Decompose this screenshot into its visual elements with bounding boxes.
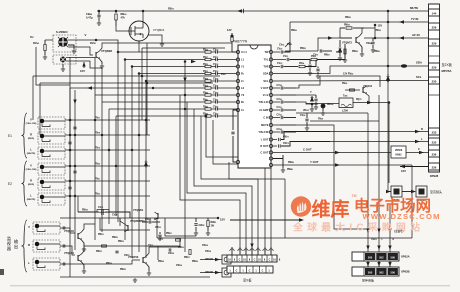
wire pin stub y95	[273, 94, 280, 96]
wire mon R to K04	[60, 246, 75, 255]
watermark logo circle	[291, 196, 311, 216]
svg-text:LZ06: LZ06	[342, 110, 348, 113]
wire drop x258	[257, 247, 259, 255]
svg-text:Y2: Y2	[241, 93, 245, 97]
svg-text:CW26: CW26	[176, 265, 182, 267]
svg-text:C: C	[239, 259, 241, 262]
svg-text:CV34: CV34	[213, 77, 218, 80]
svg-text:12V: 12V	[401, 169, 406, 173]
wire row 10 link	[211, 115, 216, 117]
svg-text:TVR: TVR	[263, 65, 268, 69]
wire stub e	[157, 246, 159, 260]
capacitor CB40	[97, 15, 100, 17]
svg-text:MUTE: MUTE	[261, 123, 269, 127]
wire row 1 to IC	[211, 51, 216, 53]
resistor RV33	[205, 72, 211, 74]
wire XP02A-XP02B x379	[378, 261, 380, 267]
wire VOUT link	[296, 76, 345, 88]
svg-text:至X板: 至X板	[243, 278, 252, 283]
connector cell 229	[429, 63, 440, 70]
wire C jack out 2	[66, 61, 102, 68]
svg-text:CV41: CV41	[213, 98, 218, 101]
wire S-video C out	[68, 47, 93, 55]
wire row 2 to IC	[211, 59, 216, 61]
svg-text:CLAMP: CLAMP	[259, 108, 268, 112]
wire pin stub y125	[273, 124, 280, 126]
svg-text:RV31: RV31	[203, 57, 208, 59]
svg-text:CV52: CV52	[279, 45, 284, 47]
connector cell 233	[429, 128, 440, 135]
capacitor CV55	[309, 60, 311, 65]
wire TVR row	[273, 66, 280, 68]
wire rail x70	[69, 57, 71, 277]
svg-text:C: C	[418, 147, 420, 151]
svg-text:CV32: CV32	[213, 64, 218, 66]
wire rail x75	[74, 90, 76, 250]
wire MUTE down	[296, 125, 368, 229]
resistor RV35	[205, 87, 211, 89]
ground IC right	[273, 155, 283, 159]
wire stub a	[100, 218, 150, 230]
pin right 16 nc	[269, 157, 272, 160]
wire bus vertical 4	[138, 74, 140, 253]
wire x285 down	[284, 179, 286, 238]
wire VTQN73 base	[340, 28, 352, 38]
svg-text:236: 236	[432, 152, 437, 156]
svg-text:(YELLOW): (YELLOW)	[26, 123, 37, 125]
parallel RC CV21/RW18	[78, 211, 97, 213]
pin right 10 C IN	[269, 116, 272, 119]
pin left 8 R<	[236, 100, 239, 103]
transistor VTQB21	[129, 21, 149, 41]
diode VD907	[311, 96, 313, 101]
wire SDA	[273, 66, 401, 74]
box XT201	[391, 186, 402, 197]
arrow mid col x368	[366, 229, 369, 234]
capacitor CW34	[63, 262, 65, 265]
junction dots mesh	[117, 51, 120, 54]
svg-text:出: 出	[14, 243, 18, 250]
brace E1	[22, 113, 28, 158]
wire corner extra 1	[206, 116, 265, 252]
wire row 6 to IC	[211, 87, 216, 89]
capacitor CV31c	[159, 232, 161, 234]
pin right 7 V<tspan font-size="1.8">CC</tspan>2	[269, 93, 272, 96]
pin right 5 SCL	[269, 79, 272, 82]
jack E2-L	[38, 193, 65, 205]
wire C OUT	[273, 152, 391, 154]
capacitor CW36b	[169, 248, 171, 251]
brace E2	[22, 161, 28, 206]
wire R OUT	[273, 145, 277, 147]
wire bus row 10	[116, 115, 205, 117]
wire bus corner 9	[194, 109, 252, 252]
capacitor CV53	[281, 65, 283, 68]
svg-text:RV54: RV54	[299, 62, 304, 65]
svg-text:R: R	[30, 178, 32, 182]
resistor RW37b	[189, 250, 191, 255]
wire bus corner 10	[201, 116, 258, 252]
wire K04 out	[82, 246, 101, 254]
connector XP91B-1	[222, 255, 231, 264]
ground VTQB21	[160, 42, 164, 46]
wire x379 col	[378, 95, 380, 252]
capacitor CV43	[216, 114, 218, 117]
label 12V arrow	[82, 62, 85, 67]
cell XP02B 1	[376, 268, 386, 275]
svg-text:RW55: RW55	[300, 48, 306, 50]
svg-text:R: R	[28, 243, 30, 247]
wire VTQ402 base	[345, 89, 360, 91]
wire RB50 to base	[116, 26, 131, 31]
cell XP02A 1	[376, 253, 386, 260]
wire VTQB21 emitter to ground	[149, 35, 163, 42]
svg-text:RW18: RW18	[82, 210, 88, 212]
wire y121 to col	[310, 120, 379, 122]
capacitor CW35	[115, 251, 118, 253]
wire x388 vertical	[387, 11, 389, 190]
svg-text:R: R	[30, 132, 32, 136]
svg-text:C: C	[254, 259, 256, 262]
arrow AF IN	[399, 36, 404, 40]
wire base riser	[318, 38, 352, 51]
wire bus row 4	[139, 73, 205, 75]
wire XP02A-XP02B x390	[389, 261, 391, 267]
svg-text:CW48: CW48	[145, 218, 151, 221]
ground VTQN08 emitter	[100, 59, 103, 64]
svg-text:CV18: CV18	[112, 215, 117, 217]
resistor RV31	[205, 58, 211, 60]
node 12V top	[374, 24, 377, 27]
svg-text:506: 506	[391, 271, 396, 275]
resistor RV43	[205, 115, 211, 117]
wire bus vertical 3	[131, 67, 133, 259]
svg-text:至伴音板: 至伴音板	[362, 278, 374, 283]
svg-text:SCL: SCL	[263, 79, 269, 83]
connector XP row1	[227, 255, 277, 262]
capacitor CV57	[320, 49, 322, 52]
wire drop x271	[270, 247, 272, 255]
svg-text:(WHITE): (WHITE)	[27, 153, 36, 155]
transistor VTQK03	[77, 233, 79, 239]
svg-text:CV62: CV62	[277, 115, 282, 117]
svg-text:RW43: RW43	[374, 50, 380, 53]
svg-text:KN02: KN02	[395, 154, 402, 157]
svg-text:236: 236	[432, 165, 437, 169]
wire SDA tail	[407, 65, 428, 67]
wire W10 base	[132, 259, 140, 261]
svg-text:RV21: RV21	[95, 179, 100, 181]
wire row 5 to IC	[211, 80, 216, 82]
svg-text:(RED): (RED)	[28, 184, 34, 186]
capacitor CE3	[73, 171, 76, 173]
wire y238 long	[157, 237, 412, 239]
svg-text:RV46: RV46	[342, 82, 347, 85]
resistor RV30	[205, 51, 211, 53]
wire TW row	[273, 51, 280, 53]
svg-text:TA8777N: TA8777N	[233, 40, 248, 44]
wire V to mesh	[105, 40, 118, 52]
resistor RW36b	[176, 239, 181, 241]
svg-text:230: 230	[432, 79, 437, 83]
wire drop x246	[245, 247, 247, 255]
capacitor CW48	[149, 220, 151, 223]
svg-text:SDA: SDA	[263, 72, 269, 76]
wire XP02A-XP02B x368	[367, 261, 369, 267]
wire SCL	[273, 80, 429, 83]
resistor RW39	[340, 27, 345, 29]
svg-text:RW35: RW35	[120, 269, 126, 271]
jack E1-V	[38, 117, 65, 129]
svg-text:12V: 12V	[227, 28, 232, 32]
wire 12V RV45	[345, 76, 380, 87]
svg-text:CV61: CV61	[277, 107, 282, 109]
wire VTQB21 down	[138, 41, 140, 52]
svg-text:CW71: CW71	[283, 137, 289, 139]
brace monitor-out	[22, 220, 28, 272]
pin right 4 SDA	[269, 72, 272, 75]
smudge bottom band	[10, 285, 450, 286]
resistor RV46b	[350, 89, 355, 91]
capacitor CV62	[281, 116, 283, 119]
capacitor CV33	[216, 72, 218, 75]
svg-text:VTQW01: VTQW01	[133, 209, 144, 212]
arrow mid col x390	[388, 229, 391, 234]
svg-text:CW29: CW29	[202, 245, 208, 247]
resistor RV34	[205, 80, 211, 82]
wire to XP91B-1	[200, 259, 222, 261]
svg-text:C: C	[269, 259, 271, 262]
svg-text:RW39: RW39	[344, 25, 350, 27]
wire jack row 1	[65, 119, 150, 121]
wire x390 col2	[389, 205, 391, 252]
capacitor CV58	[281, 86, 283, 89]
wire jack row 5	[65, 180, 150, 182]
wire svideo U loop	[36, 47, 70, 85]
svg-text:CV40: CV40	[213, 91, 218, 94]
svg-text:SCL: SCL	[416, 75, 422, 79]
svg-text:RV22: RV22	[95, 194, 100, 196]
pin right 1 TW	[269, 50, 272, 53]
pin left 9 C<	[236, 108, 239, 111]
wire drop x240	[239, 247, 241, 255]
svg-text:RW31: RW31	[98, 234, 104, 236]
jack MON-L	[33, 258, 60, 270]
wire bus corner 7	[180, 95, 240, 252]
arrow mesh down	[183, 78, 186, 83]
label 12V strip	[400, 165, 405, 169]
capacitor CE1	[73, 127, 76, 129]
bead LB1 SDA	[401, 64, 407, 67]
svg-text:V: V	[85, 33, 87, 37]
svg-text:RW42: RW42	[352, 50, 358, 53]
svg-text:VTQK04: VTQK04	[64, 252, 74, 255]
svg-text:V: V	[30, 117, 32, 121]
wire C jack out 1	[66, 57, 95, 59]
wire bottom gnd rail	[60, 276, 210, 278]
wire pin stub y117.5	[273, 117, 280, 119]
wire row 9 link	[211, 108, 216, 110]
jack MON-R	[33, 240, 60, 252]
svg-text:C: C	[249, 270, 251, 273]
pin right 14 R OUT	[269, 144, 272, 147]
arrow Y OUT	[335, 163, 340, 167]
svg-text:RV57: RV57	[221, 74, 226, 76]
diode VD11 on rail	[237, 9, 242, 13]
wire row 3 cap to IC	[217, 66, 237, 68]
pin right 12 YIN 3.58	[269, 130, 272, 133]
ground S-video shell	[62, 64, 64, 67]
cell XP02B 0	[365, 268, 375, 275]
arrow base	[328, 36, 333, 40]
capacitor CE2	[68, 142, 71, 144]
svg-text:RV20: RV20	[95, 164, 100, 166]
svg-text:CV35: CV35	[213, 85, 218, 87]
svg-text:CV53: CV53	[277, 63, 282, 65]
wire VTQB21 collector	[142, 11, 144, 24]
svg-text:TV IN: TV IN	[411, 17, 418, 21]
capacitor CV31	[216, 58, 218, 61]
wire 12V rail bottom	[60, 217, 218, 219]
svg-text:228: 228	[432, 25, 437, 29]
jack MON-V	[33, 222, 60, 234]
svg-text:SDA: SDA	[416, 61, 422, 65]
svg-text:RV59: RV59	[318, 119, 323, 121]
svg-text:RW37: RW37	[184, 257, 190, 259]
svg-text:RW36: RW36	[345, 17, 351, 19]
capacitor CV56	[317, 67, 319, 69]
svg-text:C: C	[236, 270, 238, 273]
transistor VTQW03	[127, 225, 129, 231]
wire row y83	[40, 82, 213, 84]
wire row 9 cap to IC	[217, 108, 237, 110]
svg-text:CW72: CW72	[283, 143, 289, 145]
wire mesh x185	[184, 62, 186, 253]
connector XP928 strip	[429, 4, 440, 172]
pin right 17 nc	[269, 163, 272, 166]
transistor VTQN73	[355, 37, 357, 43]
svg-text:144: 144	[432, 11, 437, 15]
svg-text:MPV5A: MPV5A	[442, 69, 453, 73]
wire VTQ402 emitter	[367, 94, 370, 104]
pin right 13 L OUT	[269, 138, 272, 141]
svg-text:RW21: RW21	[166, 233, 172, 235]
arrow drop	[250, 244, 253, 249]
svg-text:L: L	[28, 261, 30, 265]
svg-text:RV42: RV42	[203, 105, 208, 108]
wire LZ06 out	[353, 102, 389, 104]
svg-text:(RED): (RED)	[28, 138, 34, 140]
wire y220 into logo	[230, 219, 299, 221]
svg-text:RW28: RW28	[192, 261, 198, 263]
svg-text:RW32: RW32	[118, 241, 124, 243]
transistor VTQN08	[95, 52, 97, 58]
svg-text:RW45: RW45	[288, 161, 294, 164]
resistor RB50	[115, 11, 117, 13]
diode VD402	[387, 74, 389, 76]
svg-text:VTQN73: VTQN73	[342, 42, 352, 45]
IC U1 TA8777N body	[238, 45, 271, 168]
svg-text:RV40: RV40	[203, 91, 208, 94]
wire bus vertical 5	[145, 81, 147, 258]
svg-text:CV51: CV51	[283, 56, 288, 58]
wire row 8 link	[211, 101, 216, 103]
pin left 4 R<	[236, 72, 239, 75]
svg-text:Y1: Y1	[241, 65, 245, 69]
wire TVL row	[273, 59, 286, 61]
svg-text:维库: 维库	[312, 198, 350, 221]
wire VTQN73 collector	[360, 28, 376, 36]
svg-text:CW44: CW44	[366, 42, 372, 45]
capacitor CV41	[216, 100, 218, 103]
wire mon L row	[60, 263, 110, 265]
resistor RW30	[102, 245, 107, 247]
pin right 3 TVR	[269, 65, 272, 68]
svg-text:C IN: C IN	[263, 116, 268, 120]
arrow XP91B-1	[215, 258, 220, 262]
wire bus vertical 1	[117, 52, 119, 222]
cell XP02A 0	[365, 253, 375, 260]
wire row 4 cap to IC	[217, 73, 237, 75]
svg-text:CV21: CV21	[98, 207, 103, 209]
wire drop x265	[264, 247, 266, 255]
pin left 2 L1	[236, 58, 239, 61]
wire corner extra 2	[213, 120, 271, 252]
wire x78 from E-rail	[77, 196, 79, 212]
svg-text:(WHITE): (WHITE)	[27, 199, 36, 201]
node 12V bottom	[217, 217, 220, 220]
svg-text:RW24: RW24	[158, 260, 164, 263]
svg-text:VTQB21: VTQB21	[153, 28, 165, 32]
pin left 1 V<	[236, 50, 239, 53]
wire bus vertical 2	[124, 60, 126, 241]
jack E2-R	[38, 178, 65, 190]
svg-text:RV18: RV18	[95, 133, 100, 135]
wire x390 col	[388, 103, 390, 184]
svg-text:CW42: CW42	[199, 224, 205, 227]
wire to XP91B-2	[200, 272, 222, 274]
arrow rail75 down	[73, 100, 76, 105]
wire jack vertical 2	[101, 68, 103, 232]
svg-text:YIN 3.58: YIN 3.58	[258, 130, 269, 134]
wire svideo down left 1	[32, 76, 34, 120]
svg-text:500: 500	[368, 271, 373, 275]
resistor RV52	[311, 58, 317, 60]
wire mon V to K03	[60, 228, 75, 233]
wire TV IN drop	[285, 22, 290, 47]
wire row 4 to IC	[211, 73, 216, 75]
capacitor C206b	[321, 104, 326, 109]
svg-text:502: 502	[379, 256, 384, 260]
svg-text:L OUT: L OUT	[261, 138, 269, 142]
cell XP02B 2	[388, 268, 398, 275]
svg-text:CV60: CV60	[277, 99, 282, 101]
arrow TV IN	[399, 20, 404, 24]
wire svideo down left 2	[39, 83, 41, 135]
wire VTQN08 collector	[100, 43, 148, 51]
wire stub d	[100, 245, 180, 247]
connector cell 235	[429, 138, 440, 145]
capacitor CW71	[279, 138, 281, 141]
wire row 1 cap to IC	[217, 51, 237, 53]
svg-text:(YELLOW): (YELLOW)	[26, 169, 37, 171]
arrow into XP02A x379	[377, 246, 380, 251]
connector cell 236	[429, 150, 440, 157]
connector XP02A	[352, 252, 399, 261]
pin left GND	[236, 160, 239, 163]
wire nest x147	[146, 43, 148, 135]
capacitor CE4	[68, 187, 71, 189]
